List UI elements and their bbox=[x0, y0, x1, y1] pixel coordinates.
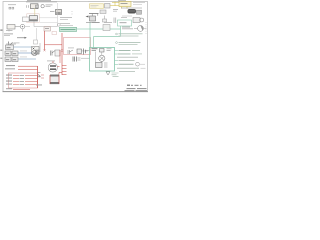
ignition coil box bbox=[50, 75, 59, 84]
wire blue row1 bbox=[14, 46, 32, 48]
teal branches right bbox=[115, 50, 119, 52]
red tick above dynamo bbox=[52, 61, 54, 63]
aux switch symbol bbox=[68, 50, 73, 54]
red row mid labels bbox=[19, 75, 25, 77]
wire faint vertical bbox=[57, 3, 59, 27]
indicator circle bbox=[41, 5, 44, 8]
wire red branch bbox=[45, 44, 63, 46]
fuse boxes row2 bbox=[5, 51, 11, 56]
dynamo motor bbox=[48, 63, 57, 72]
connector pair top-left bbox=[8, 3, 16, 6]
coil label bbox=[36, 84, 42, 87]
wire yellow horizontal bbox=[105, 4, 111, 9]
switch symbol S1 bbox=[8, 42, 10, 47]
page frame border bbox=[3, 2, 148, 92]
small box right bbox=[137, 10, 142, 14]
instrument cluster marks bbox=[114, 18, 116, 24]
legend row 6 bbox=[117, 67, 139, 70]
red x connector bbox=[61, 50, 63, 52]
legend row 2 bbox=[115, 53, 118, 55]
arrow mark bbox=[17, 37, 25, 39]
dotted vertical bbox=[145, 22, 147, 34]
line above speedo bbox=[122, 15, 132, 17]
relay label bbox=[50, 10, 55, 13]
yellow control box mid bbox=[90, 4, 104, 9]
wire teal stub top bbox=[89, 22, 91, 29]
fuse box F row1 left bbox=[6, 45, 14, 50]
legend row 7 bbox=[119, 70, 135, 73]
red jumper coil to bus bbox=[59, 73, 62, 75]
wire teal vertical into box bbox=[93, 37, 95, 48]
wire red to motor bbox=[59, 56, 61, 63]
starter motor assembly bbox=[89, 13, 99, 15]
wire teal vertical right bbox=[120, 26, 122, 37]
control box part C bbox=[96, 63, 103, 68]
title underline top bbox=[26, 1, 57, 3]
control box teal large bbox=[90, 48, 115, 72]
red wire below bbox=[13, 88, 30, 90]
wire red main down bbox=[44, 31, 46, 50]
flasher box pink bbox=[44, 27, 51, 31]
lamp unit box L1 bbox=[27, 5, 29, 8]
red wire rows upper bbox=[18, 65, 38, 67]
wire to horn bbox=[15, 26, 20, 28]
interior wires bbox=[96, 52, 102, 63]
red bus ticks bbox=[62, 66, 67, 75]
legend text rows right bbox=[116, 33, 118, 35]
fuse unit yellow right bbox=[119, 2, 131, 7]
red bus vertical bbox=[37, 66, 39, 88]
labels above teal wire bbox=[92, 21, 100, 24]
dynamo label bbox=[47, 60, 55, 63]
red stub marks bbox=[41, 75, 44, 78]
horn push box bbox=[7, 25, 15, 30]
dip switch annex bbox=[23, 17, 30, 22]
small label left bbox=[113, 8, 118, 11]
dip switch box bbox=[27, 14, 39, 23]
wire teal left vertical bbox=[89, 29, 91, 48]
ground triangle bbox=[106, 72, 110, 75]
wire gray vertical bbox=[39, 43, 41, 52]
title text top bbox=[27, 0, 51, 2]
label right of fuse bbox=[133, 1, 145, 4]
label text mid-left bbox=[4, 33, 13, 36]
horn circle bbox=[20, 24, 25, 29]
wire to control box bbox=[81, 57, 90, 59]
small connector above fuse block bbox=[57, 23, 60, 26]
fuse block label bbox=[60, 16, 72, 19]
battery cluster bbox=[77, 49, 82, 54]
fuse boxes row3 bbox=[5, 57, 11, 62]
margin tick marks bbox=[0, 29, 2, 31]
wire faint vertical right bbox=[36, 28, 38, 44]
fuel gauge circle bbox=[138, 26, 144, 32]
relay mark right of bus bbox=[38, 73, 41, 77]
wire blue row2 bbox=[18, 52, 32, 54]
label text bbox=[46, 4, 53, 7]
warning lamp circle X bbox=[99, 55, 105, 61]
wire gray from dip switch bbox=[34, 22, 58, 27]
small relay under yellow box bbox=[100, 10, 106, 14]
big pink rectangle harness bbox=[64, 38, 91, 55]
lighting circuit pink rect bbox=[9, 73, 38, 88]
inline component on teal wire bbox=[103, 25, 110, 31]
wire blue row3 bbox=[18, 58, 36, 60]
wire teal horizontal 1 bbox=[90, 28, 121, 30]
legend row 3 bbox=[117, 56, 138, 59]
switch box with red edge bbox=[55, 50, 60, 56]
fuse block green bbox=[60, 27, 77, 31]
dashes under control box bbox=[112, 73, 119, 77]
wire labels left bbox=[6, 64, 15, 67]
ignition switch symbol bbox=[51, 51, 53, 56]
wire faint horizontal bbox=[40, 17, 58, 19]
red wire rows inside bbox=[13, 75, 38, 77]
legend row 4 bbox=[115, 60, 119, 62]
wire cream vertical bbox=[34, 9, 36, 17]
title block bars bbox=[127, 88, 136, 89]
title block text bbox=[127, 85, 130, 86]
regulator cluster bbox=[73, 57, 77, 62]
wire red vertical 2 bbox=[61, 33, 63, 75]
label above fuse row bbox=[6, 43, 16, 46]
connector block with x marks bbox=[32, 47, 40, 55]
yellow cross wires bbox=[112, 2, 119, 7]
gauge unit bbox=[133, 18, 140, 23]
control box part A bbox=[92, 48, 98, 49]
wire stubs down bbox=[24, 26, 30, 28]
horn dark block bbox=[128, 9, 137, 14]
relay box R1 bbox=[56, 10, 62, 15]
legend row 5 with circle bbox=[115, 63, 119, 65]
yellow stubs bbox=[122, 7, 128, 9]
lamp X circle bbox=[32, 51, 37, 56]
gauge label bbox=[122, 26, 130, 29]
wire teal horizontal 2 bbox=[94, 36, 121, 38]
control box part B bbox=[100, 49, 105, 53]
label row above bbox=[88, 0, 104, 3]
harness inner label bbox=[79, 50, 88, 53]
wire dark horizontal bbox=[121, 7, 142, 9]
page frame bottom edge bbox=[3, 91, 149, 93]
part C marks bbox=[104, 63, 108, 67]
wire green out bbox=[77, 28, 91, 30]
faint dots middle bbox=[71, 11, 73, 15]
small solenoid under yellow box bbox=[104, 16, 106, 20]
speedo teal rect bbox=[118, 20, 132, 26]
